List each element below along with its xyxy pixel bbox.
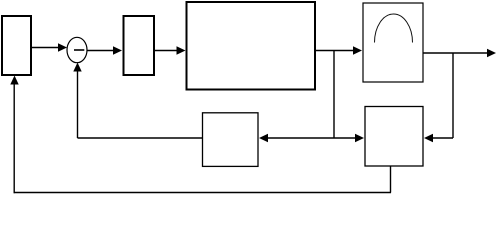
- wire: branch down from plant output node: [333, 51, 335, 139]
- arrowhead into feedback block right edge: [259, 134, 268, 142]
- block: controller (small): [124, 16, 155, 75]
- block: plant (large): [187, 2, 316, 90]
- arrowhead into output block: [353, 46, 362, 54]
- block: input block (left tall): [2, 16, 31, 75]
- wire: controller to plant block: [154, 50, 177, 52]
- wire: feedback block output going left: [78, 137, 203, 139]
- arrowhead: system output: [487, 49, 496, 57]
- arrowhead into sensor block right edge: [424, 134, 433, 142]
- wire: up to summing junction: [77, 72, 79, 139]
- wire: output block to system output: [423, 52, 488, 54]
- arrowhead into summing junction bottom: [73, 63, 81, 72]
- arrowhead into input block bottom: [10, 76, 18, 85]
- summing junction: [67, 37, 87, 62]
- wire: plant to output block: [315, 50, 354, 52]
- wire: input block to summing junction: [31, 47, 59, 49]
- block: feedback (bottom middle): [203, 113, 259, 167]
- arrowhead into summing junction: [58, 43, 67, 51]
- block: sensor (bottom right): [365, 107, 423, 167]
- dome curve inside output block: [375, 14, 413, 43]
- wire: up left side to input block: [13, 85, 15, 194]
- arrowhead into plant block: [177, 46, 186, 54]
- wire: branch down from output node: [452, 53, 454, 138]
- wire: summing junction to controller block: [87, 50, 114, 52]
- minus sign in summing junction: [74, 49, 84, 51]
- wire: sensor block bottom down: [390, 167, 392, 193]
- arrowhead into controller block: [113, 46, 122, 54]
- wire: long feedback bottom line: [14, 192, 391, 194]
- block: output block with dome curve: [363, 3, 423, 82]
- wire: right branch into sensor block right side: [433, 137, 454, 139]
- arrowhead into sensor block left edge: [355, 134, 364, 142]
- wire: horizontal between feedback block and sensor block: [268, 137, 357, 139]
